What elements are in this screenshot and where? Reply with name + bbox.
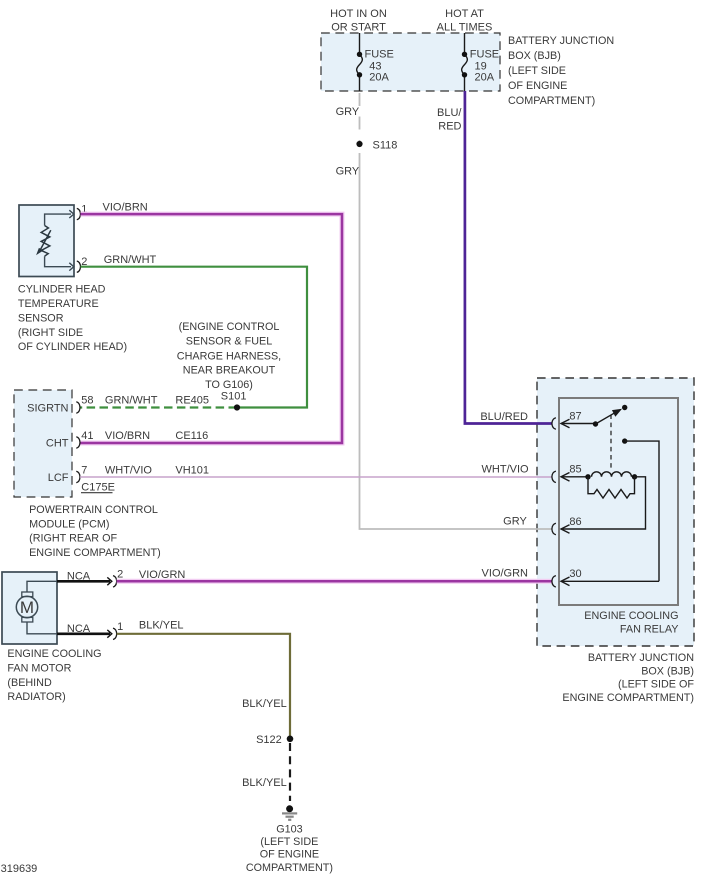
cylinder head temperature sensor box [19,205,74,277]
svg-text:BATTERY JUNCTION: BATTERY JUNCTION [508,35,614,47]
relay pin 87 terminal [552,410,596,429]
wire WHT/VIO PCM pin 7 to relay pin 85 [80,476,552,478]
label GRY lower [336,166,360,178]
svg-text:HOT AT: HOT AT [445,8,484,20]
wire BLK/YEL dashed S122 to G103 [289,743,291,801]
svg-text:VIO/GRN: VIO/GRN [482,568,529,580]
label WHT/VIO (at relay) [482,464,529,476]
wire GRY from S118 to relay pin 86 [360,153,552,529]
svg-text:M: M [20,598,34,617]
svg-text:NCA: NCA [67,623,91,635]
header HOT AT ALL TIMES [437,8,493,33]
wire GRY dashed from fuse 43 [359,93,361,141]
svg-text:GRY: GRY [503,516,527,528]
wire BLK/YEL motor pin 1 to S122 [117,634,290,737]
svg-text:41: 41 [81,430,93,442]
label VIO/BRN CE116 [105,430,208,442]
svg-text:WHT/VIO: WHT/VIO [482,464,529,476]
svg-text:(LEFT SIDE OF: (LEFT SIDE OF [618,679,694,691]
svg-text:OF ENGINE: OF ENGINE [260,849,319,861]
splice S122 [256,734,293,746]
motor internal wire pin 2 [27,581,57,592]
svg-text:85: 85 [569,464,581,476]
relay pin 85 terminal [552,464,588,483]
svg-text:CYLINDER HEAD: CYLINDER HEAD [18,284,106,296]
svg-text:FAN MOTOR: FAN MOTOR [7,663,71,675]
svg-text:WHT/VIO: WHT/VIO [105,464,152,476]
svg-text:SENSOR & FUEL: SENSOR & FUEL [186,336,272,348]
svg-text:NCA: NCA [67,571,91,583]
svg-text:GRN/WHT: GRN/WHT [104,254,157,266]
diagram number [1,863,38,875]
svg-text:CHT: CHT [46,438,69,450]
svg-text:ENGINE COOLING: ENGINE COOLING [584,610,678,622]
relay resistor (parallel) [588,477,635,498]
svg-text:(BEHIND: (BEHIND [7,677,52,689]
connector arc motor pin 2 [113,569,123,588]
label VIO/GRN (at relay) [482,568,529,580]
splice S101 [221,391,247,411]
relay actuation dashed line [610,415,612,471]
label GRN/WHT (sensor pin 2) [104,254,157,266]
label BLK/YEL (at motor) [139,620,184,632]
engine cooling fan motor box [2,572,57,644]
svg-text:MODULE (PCM): MODULE (PCM) [29,518,109,530]
svg-text:POWERTRAIN CONTROL: POWERTRAIN CONTROL [29,504,158,516]
svg-text:(RIGHT SIDE: (RIGHT SIDE [18,327,83,339]
svg-text:GRY: GRY [336,106,360,118]
svg-text:OR START: OR START [331,21,386,33]
svg-text:SENSOR: SENSOR [18,313,64,325]
caption G103 [246,824,333,875]
svg-text:BLK/YEL: BLK/YEL [242,777,287,789]
connector arc PCM pin 41 [76,430,93,448]
svg-text:(LEFT SIDE: (LEFT SIDE [508,65,566,77]
svg-text:CHARGE HARNESS,: CHARGE HARNESS, [177,350,281,362]
label battery junction box (top) [508,35,614,107]
svg-text:BLK/YEL: BLK/YEL [242,698,287,710]
svg-text:20A: 20A [475,72,495,84]
battery junction box (relay BJB) [537,378,694,646]
engine cooling fan relay box [559,398,678,605]
relay coil [585,472,637,480]
svg-text:S101: S101 [221,391,247,403]
svg-text:(ENGINE CONTROL: (ENGINE CONTROL [179,321,280,333]
svg-text:RE405: RE405 [175,394,209,406]
thermistor inside sensor [37,226,51,257]
connector arc PCM pin 7 [76,464,87,482]
motor M symbol [16,592,37,622]
relay contact to pin 30 [622,438,659,581]
svg-text:S118: S118 [373,139,398,151]
header HOT IN ON OR START [330,8,387,33]
caption harness note [177,321,281,391]
svg-text:86: 86 [569,516,581,528]
connector arc motor pin 1 [113,621,123,640]
wire NCA motor pin 1 [57,623,112,638]
svg-text:58: 58 [81,394,93,406]
caption battery junction box (bottom) [562,652,694,704]
fuse F43 20A [357,33,394,91]
sensor internal wire pin 2 [45,256,74,270]
svg-text:BATTERY JUNCTION: BATTERY JUNCTION [588,652,694,664]
svg-text:1: 1 [117,621,123,633]
svg-text:2: 2 [117,569,123,581]
svg-text:ENGINE COMPARTMENT): ENGINE COMPARTMENT) [29,547,161,559]
caption engine cooling fan motor [7,648,101,703]
relay pin 30 terminal [552,568,659,587]
svg-text:VIO/BRN: VIO/BRN [105,430,150,442]
svg-text:OF ENGINE: OF ENGINE [508,80,567,92]
svg-text:(RIGHT REAR OF: (RIGHT REAR OF [29,533,117,545]
label BLU/RED (at relay) [480,411,528,423]
wire GRN/WHT dashed S101 to PCM pin 58 [80,406,237,408]
svg-text:FUSE: FUSE [365,49,394,61]
svg-text:BLU/RED: BLU/RED [480,411,528,423]
svg-text:OF CYLINDER HEAD): OF CYLINDER HEAD) [18,341,127,353]
wire VIO/BRN sensor pin1 to PCM pin 41 [80,214,342,443]
svg-text:20A: 20A [369,72,389,84]
wire NCA motor pin 2 [57,571,112,586]
connector C175E [81,482,115,494]
label WHT/VIO VH101 [105,464,209,476]
svg-text:319639: 319639 [1,863,38,875]
label GRY (at relay) [503,516,527,528]
svg-text:COMPARTMENT): COMPARTMENT) [508,95,595,107]
svg-text:BLU/: BLU/ [437,107,462,119]
svg-text:30: 30 [569,568,581,580]
svg-text:ALL TIMES: ALL TIMES [437,21,493,33]
svg-text:LCF: LCF [48,472,69,484]
svg-text:RED: RED [438,120,461,132]
svg-text:G103: G103 [276,824,302,836]
relay pin 86 terminal [552,516,582,535]
label BLK/YEL (vertical upper) [242,698,287,710]
motor internal wire pin 1 [27,622,57,634]
svg-text:SIGRTN: SIGRTN [27,403,68,415]
caption engine cooling fan relay [584,610,678,635]
caption cylinder head temperature sensor [18,284,127,354]
svg-text:19: 19 [475,60,487,72]
svg-text:NEAR BREAKOUT: NEAR BREAKOUT [183,365,276,377]
label BLK/YEL (vertical lower) [242,777,287,789]
svg-text:S122: S122 [256,734,282,746]
wire VIO/GRN motor pin 2 to relay pin 30 [117,579,552,584]
svg-text:TO G106): TO G106) [205,379,253,391]
svg-text:43: 43 [369,60,381,72]
battery junction box (fuse box) [321,33,500,91]
powertrain control module box [14,390,72,497]
wire GRN/WHT sensor pin2 to S101 (solid) [81,267,308,408]
fuse F19 20A [462,33,499,91]
label BLU/ RED (top) [437,107,462,132]
svg-text:COMPARTMENT): COMPARTMENT) [246,862,333,874]
svg-text:VH101: VH101 [175,464,209,476]
svg-text:GRN/WHT: GRN/WHT [105,394,158,406]
label VIO/GRN (at motor) [139,569,186,581]
svg-text:VIO/GRN: VIO/GRN [139,569,186,581]
relay coil to pin 86 wire [561,477,646,529]
svg-text:BLK/YEL: BLK/YEL [139,620,184,632]
svg-text:RADIATOR): RADIATOR) [7,691,65,703]
wire BLU/RED from fuse 19 to relay pin 87 [465,91,552,424]
sensor internal wire pin 1 [45,210,74,225]
svg-text:CE116: CE116 [175,430,208,442]
svg-text:BOX (BJB): BOX (BJB) [508,50,561,62]
svg-text:HOT IN ON: HOT IN ON [330,8,387,20]
svg-text:ENGINE COMPARTMENT): ENGINE COMPARTMENT) [562,692,694,704]
label GRN/WHT RE405 [105,394,209,406]
connector arc PCM pin 58 [76,394,93,413]
svg-text:FAN RELAY: FAN RELAY [620,623,679,635]
svg-text:GRY: GRY [336,166,360,178]
svg-text:7: 7 [81,464,87,476]
ground G103 [282,805,297,820]
svg-text:C175E: C175E [81,482,115,494]
label VIO/BRN (sensor pin 1) [103,202,148,214]
splice S118 [356,139,397,151]
svg-text:TEMPERATURE: TEMPERATURE [18,298,99,310]
caption powertrain control module [29,504,161,559]
connector arc sensor pin 1 [77,204,88,220]
svg-text:87: 87 [569,410,581,422]
label GRY upper [336,106,360,118]
relay switch arm [593,405,628,427]
svg-text:ENGINE COOLING: ENGINE COOLING [7,648,101,660]
svg-text:(LEFT SIDE: (LEFT SIDE [260,836,318,848]
svg-text:BOX (BJB): BOX (BJB) [641,665,694,677]
svg-text:FUSE: FUSE [470,49,499,61]
connector arc sensor pin 2 [77,256,88,272]
